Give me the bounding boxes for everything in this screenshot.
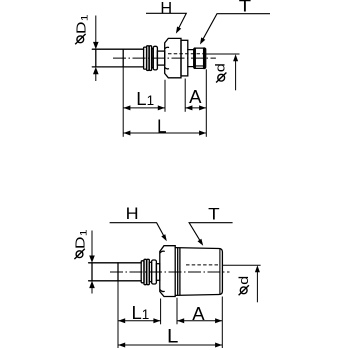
bead ring bbox=[141, 261, 144, 283]
L1 arrow left bbox=[118, 318, 125, 323]
extension line at thread end bbox=[221, 297, 223, 349]
L1 dimension line bbox=[123, 107, 165, 109]
rib 1 bbox=[147, 46, 149, 71]
extension lines for L1 / A / L (bottom view) bbox=[118, 281, 222, 348]
hex nut upper chamfer arc bbox=[160, 251, 164, 253]
L arrow left bbox=[118, 343, 125, 348]
threaded end body bbox=[194, 48, 206, 68]
thread first crest line bbox=[179, 248, 181, 295]
hex nut lower chamfer arc bbox=[165, 68, 169, 69]
thread root line bbox=[196, 65, 203, 67]
svg-text:A: A bbox=[189, 86, 202, 107]
extension line at nut left face bbox=[160, 299, 162, 325]
stem step line bbox=[122, 49, 124, 67]
tube stem bottom edge (with left extension) bbox=[92, 66, 143, 68]
flange washer bbox=[181, 40, 188, 76]
hidden bore line (bottom view) bbox=[186, 264, 220, 266]
svg-text:d: d bbox=[237, 276, 251, 285]
tube left end edge bbox=[91, 263, 93, 281]
svg-text:D: D bbox=[73, 237, 88, 249]
phiD1 arrow down bbox=[93, 42, 99, 49]
rib 2 bbox=[149, 46, 151, 71]
phi-d extension line bbox=[222, 264, 260, 266]
extension line at nut left face bbox=[164, 80, 166, 112]
extension line at thread left bbox=[176, 298, 178, 325]
neck top edge bbox=[188, 49, 194, 51]
H leader arrow bbox=[161, 234, 167, 241]
L1 arrow right bbox=[158, 105, 165, 110]
phiD1 label: phi symbol bbox=[74, 249, 84, 259]
A arrow right bbox=[199, 105, 206, 110]
svg-text:T: T bbox=[208, 205, 220, 223]
T leader line bbox=[189, 223, 233, 244]
hex nut outline bbox=[165, 38, 181, 77]
dimension phi-d (bottom view) bbox=[222, 265, 260, 302]
A arrow right bbox=[215, 318, 222, 323]
hex nut upper chamfer arc bbox=[165, 47, 169, 48]
extension line at stem step bbox=[117, 281, 119, 348]
tube stem top edge (with left extension) bbox=[89, 262, 142, 264]
hex nut outline bbox=[160, 246, 175, 297]
valley bbox=[152, 49, 154, 68]
thread chamfer line left bbox=[194, 48, 196, 68]
svg-text:H: H bbox=[160, 0, 172, 17]
centerline (top view) bbox=[113, 57, 216, 59]
H leader line bbox=[146, 13, 186, 30]
svg-text:L: L bbox=[167, 326, 178, 347]
tube stem top edge (with left extension) bbox=[92, 48, 143, 50]
barrel bbox=[152, 260, 157, 284]
A dimension line bbox=[177, 320, 222, 322]
L dimension line bbox=[123, 132, 206, 134]
T leader arrow bbox=[198, 239, 204, 246]
T leader line bbox=[202, 14, 271, 42]
svg-text:H: H bbox=[126, 205, 139, 223]
svg-text:d: d bbox=[214, 63, 228, 72]
rib 2 bbox=[147, 259, 150, 284]
dimension phi-d (top view) bbox=[206, 54, 240, 90]
neck bottom edge bbox=[188, 66, 194, 68]
phiD1 arrow up bbox=[89, 281, 95, 288]
A arrow left bbox=[177, 318, 184, 323]
rib 1 bbox=[144, 259, 147, 284]
L1 arrow right bbox=[153, 318, 160, 323]
L dimension line bbox=[118, 344, 222, 346]
thread left edge bbox=[177, 248, 179, 295]
thread right chamfer line bbox=[219, 249, 221, 293]
A arrow left bbox=[185, 105, 192, 110]
phi-d dimension line bbox=[235, 60, 237, 91]
extension line at stem step bbox=[122, 67, 124, 137]
extension line at thread end bbox=[205, 69, 207, 137]
stem step line bbox=[117, 263, 119, 281]
phi-d arrow up bbox=[233, 54, 238, 61]
svg-text:L: L bbox=[157, 116, 166, 137]
barrel bbox=[153, 46, 157, 70]
L arrow right bbox=[199, 131, 206, 136]
phi-d extension line bbox=[206, 53, 240, 55]
L1 arrow left bbox=[123, 105, 130, 110]
valley bbox=[149, 262, 151, 281]
dimension phiD1 (top view) bbox=[95, 16, 97, 82]
H leader line bbox=[110, 223, 166, 239]
phiD1 label: phi symbol bbox=[75, 34, 85, 44]
T leader arrow bbox=[200, 37, 205, 44]
phi-d arrow up bbox=[255, 265, 260, 272]
phi-d label: phi symbol bbox=[216, 73, 226, 83]
A dimension line bbox=[185, 107, 206, 109]
thread chamfer line right bbox=[203, 48, 205, 68]
phi-d label: phi symbol bbox=[239, 285, 249, 295]
phi-d dimension line bbox=[256, 271, 258, 303]
H leader arrow bbox=[176, 27, 181, 34]
hidden bore line (top view) bbox=[168, 53, 204, 55]
extension lines for L1 / A / L (top view) bbox=[123, 67, 206, 137]
L arrow left bbox=[123, 131, 130, 136]
svg-text:A: A bbox=[192, 303, 205, 324]
dimension phiD1 (bottom view) bbox=[91, 231, 93, 294]
bead ring bbox=[144, 47, 147, 69]
shank bbox=[156, 264, 159, 281]
hex nut lower chamfer arc bbox=[160, 290, 164, 292]
svg-text:1: 1 bbox=[79, 229, 89, 236]
shank bbox=[157, 51, 164, 65]
tube left end edge bbox=[95, 49, 97, 67]
phiD1 arrow up bbox=[93, 67, 99, 74]
L1 dimension line bbox=[118, 320, 161, 322]
svg-text:1: 1 bbox=[80, 14, 90, 21]
tube stem bottom edge (with left extension) bbox=[89, 280, 142, 282]
svg-text:D: D bbox=[74, 22, 89, 34]
centerline (bottom view) bbox=[110, 271, 230, 273]
threaded end body bbox=[175, 248, 222, 296]
L arrow right bbox=[215, 343, 222, 348]
phiD1 arrow down bbox=[89, 256, 95, 263]
extension line at flange right face bbox=[184, 79, 186, 112]
